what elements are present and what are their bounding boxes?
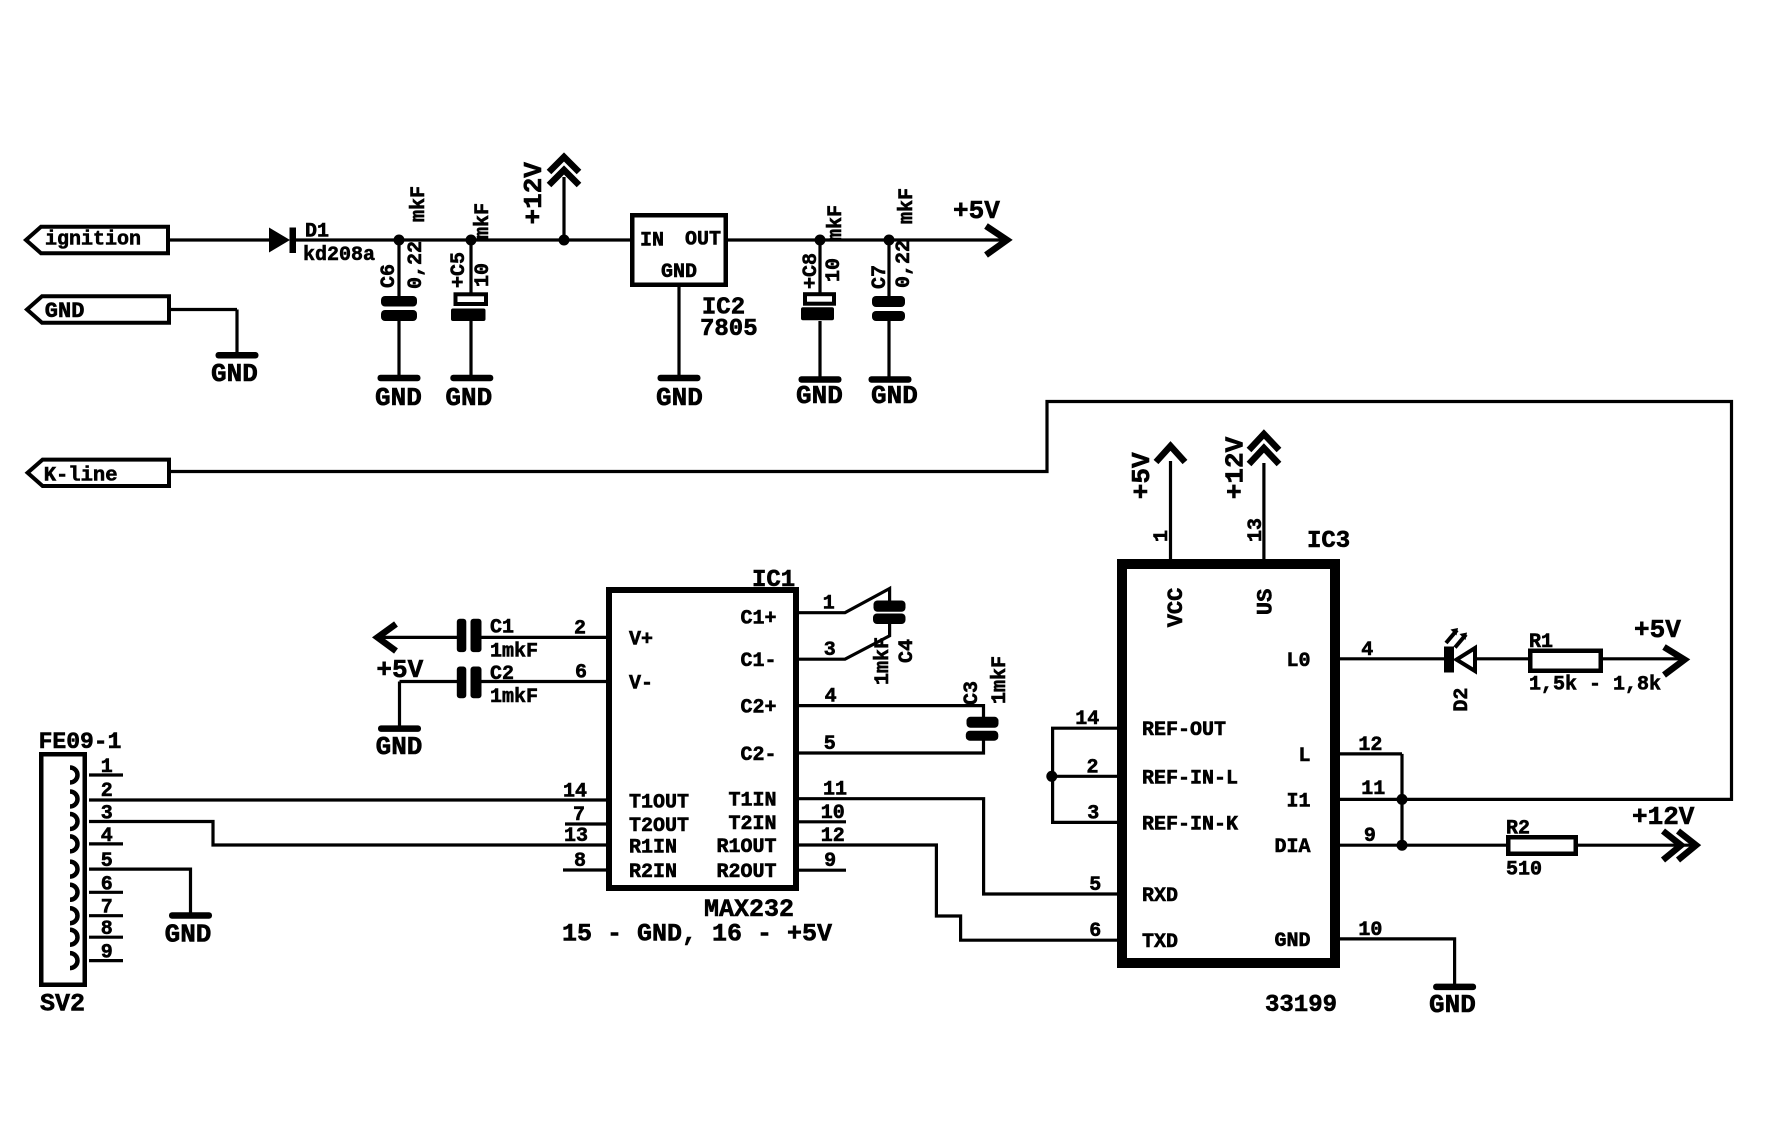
svg-text:R2: R2 — [1506, 818, 1530, 841]
svg-text:10: 10 — [472, 263, 495, 287]
svg-text:1mkF: 1mkF — [490, 686, 538, 709]
svg-text:D2: D2 — [1451, 688, 1474, 712]
svg-text:R2IN: R2IN — [629, 861, 677, 884]
svg-text:1mkF: 1mkF — [490, 641, 538, 664]
svg-text:GND: GND — [1429, 990, 1476, 1020]
svg-text:5: 5 — [824, 733, 836, 756]
svg-text:+5V: +5V — [376, 655, 423, 685]
svg-text:D1: D1 — [305, 221, 329, 244]
svg-text:12: 12 — [821, 825, 845, 848]
svg-text:V-: V- — [629, 673, 653, 696]
svg-text:GND: GND — [211, 359, 258, 389]
svg-text:RXD: RXD — [1142, 885, 1178, 908]
svg-text:1mkF: 1mkF — [872, 637, 895, 685]
svg-text:1mkF: 1mkF — [989, 656, 1012, 704]
svg-text:REF-OUT: REF-OUT — [1142, 719, 1226, 742]
svg-text:5: 5 — [101, 850, 113, 873]
svg-text:3: 3 — [824, 639, 836, 662]
svg-text:1: 1 — [823, 593, 835, 616]
svg-text:ignition: ignition — [45, 229, 141, 252]
svg-text:T1IN: T1IN — [728, 790, 776, 813]
svg-text:1: 1 — [101, 756, 113, 779]
svg-text:mkF: mkF — [472, 203, 495, 239]
svg-text:9: 9 — [1364, 825, 1376, 848]
svg-text:T1OUT: T1OUT — [629, 792, 689, 815]
svg-text:4: 4 — [101, 825, 113, 848]
svg-text:US: US — [1253, 589, 1278, 615]
svg-text:TXD: TXD — [1142, 931, 1178, 954]
svg-text:kd208a: kd208a — [303, 244, 375, 267]
svg-text:6: 6 — [575, 662, 587, 685]
svg-text:0,22: 0,22 — [893, 240, 916, 288]
svg-text:14: 14 — [563, 781, 587, 804]
svg-text:+12V: +12V — [519, 162, 549, 225]
svg-text:SV2: SV2 — [40, 990, 85, 1019]
svg-text:33199: 33199 — [1265, 992, 1337, 1019]
svg-text:REF-IN-K: REF-IN-K — [1142, 813, 1238, 836]
svg-text:9: 9 — [101, 942, 113, 965]
svg-text:510: 510 — [1506, 859, 1542, 882]
svg-text:+C8: +C8 — [800, 253, 823, 289]
svg-text:GND: GND — [661, 261, 697, 284]
svg-text:7805: 7805 — [700, 316, 758, 343]
svg-text:13: 13 — [564, 825, 588, 848]
svg-text:10: 10 — [823, 258, 846, 282]
svg-text:K-line: K-line — [44, 465, 118, 488]
svg-text:14: 14 — [1075, 708, 1099, 731]
svg-text:C3: C3 — [961, 681, 984, 705]
svg-text:+C5: +C5 — [448, 252, 471, 288]
svg-text:12: 12 — [1358, 734, 1382, 757]
svg-text:1,5k - 1,8k: 1,5k - 1,8k — [1529, 674, 1661, 697]
svg-text:R2OUT: R2OUT — [716, 861, 776, 884]
svg-text:GND: GND — [445, 383, 492, 413]
svg-text:OUT: OUT — [685, 229, 721, 252]
svg-text:C4: C4 — [896, 639, 919, 663]
svg-text:VCC: VCC — [1164, 588, 1189, 628]
svg-text:C2: C2 — [490, 663, 514, 686]
svg-text:T2OUT: T2OUT — [629, 815, 689, 838]
svg-text:C1+: C1+ — [740, 608, 776, 631]
svg-text:13: 13 — [1245, 518, 1268, 542]
svg-text:C2-: C2- — [740, 744, 776, 767]
svg-text:4: 4 — [1361, 639, 1373, 662]
svg-text:FE09-1: FE09-1 — [39, 729, 122, 755]
svg-text:+12V: +12V — [1632, 802, 1695, 832]
svg-text:mkF: mkF — [408, 186, 431, 222]
svg-text:15 - GND, 16 - +5V: 15 - GND, 16 - +5V — [562, 920, 832, 949]
svg-text:4: 4 — [825, 686, 837, 709]
svg-text:GND: GND — [165, 920, 212, 950]
svg-text:IC3: IC3 — [1307, 528, 1350, 555]
svg-text:6: 6 — [1089, 920, 1101, 943]
svg-text:IC1: IC1 — [752, 567, 795, 594]
svg-text:11: 11 — [823, 779, 847, 802]
svg-text:I1: I1 — [1286, 790, 1310, 813]
svg-text:8: 8 — [574, 850, 586, 873]
svg-text:GND: GND — [376, 732, 423, 762]
svg-text:GND: GND — [796, 381, 843, 411]
svg-text:7: 7 — [573, 804, 585, 827]
svg-text:10: 10 — [821, 802, 845, 825]
svg-text:+5V: +5V — [1634, 615, 1681, 645]
svg-text:2: 2 — [1087, 756, 1099, 779]
svg-text:T2IN: T2IN — [728, 813, 776, 836]
svg-text:+5V: +5V — [1127, 452, 1157, 499]
svg-text:GND: GND — [375, 383, 422, 413]
svg-text:C6: C6 — [378, 264, 401, 288]
svg-text:0,22: 0,22 — [405, 241, 428, 289]
svg-text:+5V: +5V — [953, 196, 1000, 226]
svg-text:10: 10 — [1358, 919, 1382, 942]
svg-text:R1: R1 — [1529, 631, 1553, 654]
svg-text:C1: C1 — [490, 617, 514, 640]
svg-text:7: 7 — [101, 897, 113, 920]
svg-text:8: 8 — [101, 918, 113, 941]
svg-text:V+: V+ — [629, 628, 653, 651]
svg-text:+12V: +12V — [1220, 436, 1250, 499]
svg-text:9: 9 — [824, 850, 836, 873]
svg-text:L0: L0 — [1286, 650, 1310, 673]
svg-text:C1-: C1- — [740, 650, 776, 673]
svg-text:3: 3 — [101, 803, 113, 826]
svg-text:DIA: DIA — [1274, 836, 1310, 859]
svg-text:mkF: mkF — [896, 188, 919, 224]
svg-text:6: 6 — [101, 873, 113, 896]
svg-text:C2+: C2+ — [740, 697, 776, 720]
svg-text:1: 1 — [1151, 530, 1174, 542]
svg-text:mkF: mkF — [825, 205, 848, 241]
svg-text:L: L — [1298, 745, 1310, 768]
svg-text:2: 2 — [101, 780, 113, 803]
svg-text:GND: GND — [656, 383, 703, 413]
svg-text:3: 3 — [1087, 802, 1099, 825]
svg-text:2: 2 — [574, 617, 586, 640]
svg-text:GND: GND — [45, 299, 85, 324]
svg-text:GND: GND — [871, 381, 918, 411]
svg-text:R1IN: R1IN — [629, 837, 677, 860]
svg-text:5: 5 — [1089, 874, 1101, 897]
svg-text:R1OUT: R1OUT — [716, 836, 776, 859]
svg-text:IN: IN — [640, 230, 664, 253]
svg-text:GND: GND — [1274, 930, 1310, 953]
svg-text:11: 11 — [1361, 778, 1385, 801]
svg-text:C7: C7 — [869, 265, 892, 289]
svg-text:REF-IN-L: REF-IN-L — [1142, 767, 1238, 790]
